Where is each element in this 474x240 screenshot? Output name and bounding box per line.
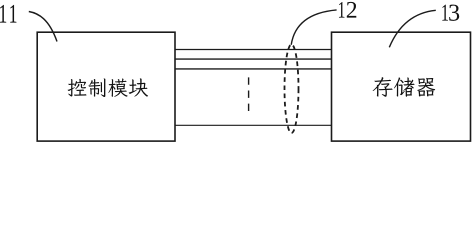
label 11 digit 1b — [10, 5, 16, 23]
text char 模 — [108, 78, 127, 96]
wire bus line 2 — [175, 58, 332, 60]
label 12 digit 1 — [339, 2, 345, 18]
wire continuation dashed mid mark — [248, 77, 250, 112]
label 13 digit 1 — [442, 5, 448, 21]
text char 块 — [129, 78, 148, 96]
block 11: control module box — [37, 32, 175, 141]
label 11 digit 1a — [0, 5, 6, 23]
text char 制 — [88, 78, 105, 97]
leader line for label 13 — [389, 10, 436, 47]
leader line for label 12 — [291, 10, 336, 45]
block 13: memory box — [332, 32, 471, 141]
wire bus line 4 (bottom) — [175, 124, 332, 126]
text char 存 — [373, 77, 393, 97]
label 13 digit 3 — [449, 5, 459, 21]
label 12 digit 2 — [347, 2, 356, 18]
text char 储 — [394, 77, 415, 96]
bus highlight ellipse 12 (dashed) — [285, 44, 299, 133]
text char 器 — [417, 78, 435, 97]
text char 控 — [68, 79, 87, 97]
wire bus line 3 — [175, 68, 332, 70]
leader line for label 11 — [29, 12, 57, 42]
wire bus line 1 — [175, 49, 332, 51]
